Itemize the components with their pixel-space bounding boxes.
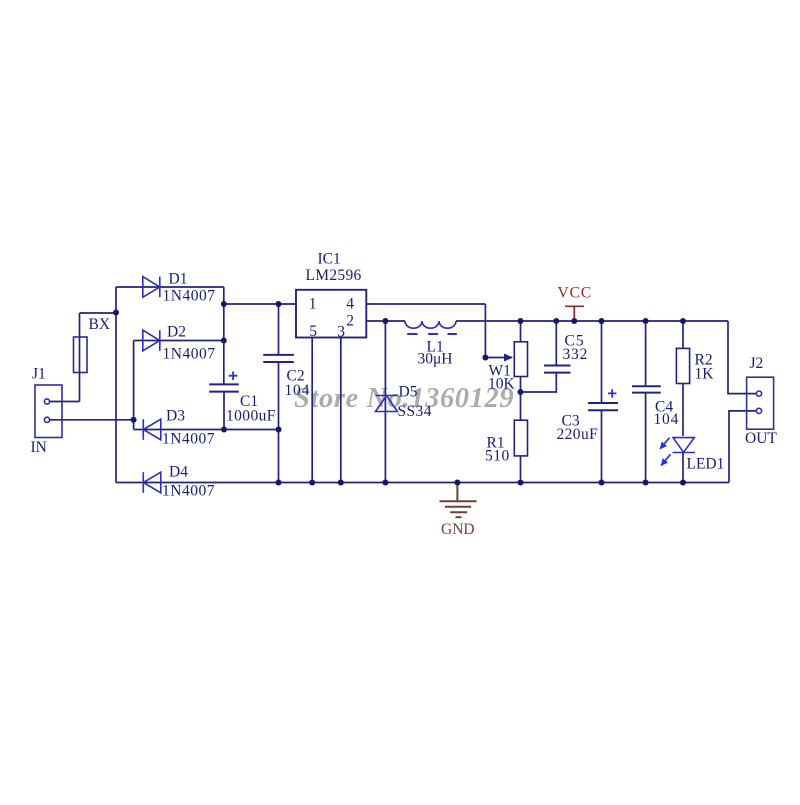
diode D5 schottky	[376, 396, 398, 412]
svg-text:J1: J1	[32, 366, 46, 383]
svg-text:D5: D5	[399, 384, 418, 401]
node feedback divider	[518, 389, 524, 395]
wire IC1 pin4 feedback row	[366, 303, 485, 305]
wire C5 top lead	[555, 321, 557, 365]
inductor L1	[405, 321, 456, 328]
junction dots	[113, 301, 686, 486]
svg-text:1N4007: 1N4007	[162, 483, 215, 500]
svg-text:104: 104	[654, 411, 680, 428]
node C2 ground	[276, 480, 282, 486]
svg-text:5: 5	[309, 323, 317, 340]
node C3 ground	[599, 480, 605, 486]
node C5 rail	[553, 318, 559, 324]
wire IC1 pin5 to ground	[311, 338, 313, 483]
wire feedback node to C5 bottom	[521, 373, 557, 392]
wire C2 top lead	[278, 304, 280, 355]
wire D5 vertical	[384, 321, 386, 483]
wire L1 to output rail	[456, 320, 728, 322]
svg-text:GND: GND	[441, 521, 475, 538]
wire fuse top to bus	[80, 312, 117, 314]
resistor R1	[514, 420, 527, 456]
watermark Store No.1360129	[294, 383, 516, 415]
node C2 top	[276, 301, 282, 307]
wire node row to IC1 pin1	[224, 303, 296, 305]
svg-text:1: 1	[309, 296, 317, 313]
svg-text:D2: D2	[167, 324, 186, 341]
svg-text:510: 510	[485, 448, 510, 465]
svg-text:D1: D1	[169, 271, 188, 288]
wire J1 pin2 row	[50, 419, 134, 421]
wire W1 bottom lead to node	[520, 377, 522, 421]
svg-text:D3: D3	[166, 408, 185, 425]
svg-text:LM2596: LM2596	[306, 267, 362, 284]
node C4 rail	[643, 318, 649, 324]
svg-text:OUT: OUT	[745, 430, 777, 447]
diode D3	[143, 419, 161, 440]
svg-text:3: 3	[337, 324, 345, 341]
svg-text:30μH: 30μH	[418, 351, 453, 368]
svg-text:332: 332	[563, 346, 589, 363]
wire C1 bottom lead	[223, 392, 225, 430]
svg-text:J2: J2	[750, 355, 764, 372]
svg-text:IN: IN	[31, 439, 47, 456]
wire left AC bus vertical	[115, 287, 117, 483]
diode D1	[143, 277, 160, 298]
node pin5 ground	[309, 480, 315, 486]
svg-text:LED1: LED1	[687, 456, 725, 473]
wire C4 top lead	[645, 321, 647, 386]
node VCC rail	[571, 318, 577, 324]
wire D1 cathode vertical down to C1	[223, 287, 225, 384]
node wiper	[482, 355, 488, 361]
wire rail corner down to J2 pin1	[728, 321, 756, 394]
fuse BX	[74, 337, 88, 373]
op-amp IC1 LM2596 box	[296, 290, 366, 338]
wire D1 row	[116, 286, 224, 288]
node R2 rail	[680, 318, 686, 324]
node C1 bottom	[221, 427, 227, 433]
wire ground bus	[116, 482, 729, 484]
wire C2 bottom lead to ground bus	[278, 362, 280, 483]
LED LED1	[673, 438, 696, 453]
svg-text:1000uF: 1000uF	[226, 408, 276, 425]
connector J2	[747, 377, 774, 429]
node W1 top rail	[518, 318, 524, 324]
svg-text:1N4007: 1N4007	[162, 431, 215, 448]
capacitor C2	[263, 355, 294, 362]
resistor R2	[676, 348, 689, 383]
potentiometer W1 body	[514, 342, 527, 377]
wire W1 wiper arrow	[485, 357, 512, 359]
core dashes of L1	[407, 333, 457, 335]
svg-text:VCC: VCC	[558, 285, 593, 302]
node C3 rail	[599, 318, 605, 324]
svg-text:4: 4	[346, 296, 354, 313]
svg-text:1N4007: 1N4007	[163, 288, 216, 305]
ground symbol	[440, 483, 477, 517]
power VCC symbol	[565, 306, 584, 321]
svg-text:IC1: IC1	[318, 251, 341, 268]
svg-text:2: 2	[346, 313, 354, 330]
svg-text:1K: 1K	[695, 366, 715, 383]
svg-text:1N4007: 1N4007	[163, 346, 216, 363]
wire IC1 pin3 to ground	[340, 338, 342, 483]
capacitor C5	[544, 366, 571, 373]
diode D2	[143, 330, 160, 351]
node LED1 ground	[680, 480, 686, 486]
node J1 pin2 junction	[131, 417, 137, 423]
wire J2 pin2 to ground bus	[729, 411, 756, 483]
node fuse-bus junction	[113, 310, 119, 316]
node GND junction	[454, 480, 460, 486]
wire R2 to LED1	[682, 384, 684, 437]
wire C3 bottom lead	[601, 410, 603, 482]
capacitor C4	[632, 386, 661, 392]
diode D4	[143, 472, 161, 493]
emission arrow 1 of LED1	[660, 438, 669, 449]
wire LED1 cathode to ground bus	[682, 453, 684, 483]
plus sign of C1	[229, 371, 238, 380]
capacitor C3 electrolytic	[588, 403, 618, 410]
node R1 ground	[518, 480, 524, 486]
svg-text:SS34: SS34	[398, 403, 432, 420]
wire D2 anode vertical	[133, 341, 135, 430]
plus sign of C3	[608, 389, 616, 397]
wire R1 bottom lead	[520, 456, 522, 483]
node C4 ground	[643, 480, 649, 486]
svg-text:220uF: 220uF	[557, 426, 599, 443]
wire J1 pin1 to fuse	[50, 401, 80, 403]
svg-text:D4: D4	[169, 464, 188, 481]
wire IC1 pin2 to L1	[366, 320, 405, 322]
wire C4 bottom lead	[645, 393, 647, 483]
svg-text:BX: BX	[89, 316, 111, 333]
node D5 top	[382, 318, 388, 324]
svg-text:104: 104	[285, 382, 311, 399]
wire C3 top lead	[601, 321, 603, 403]
node D1 cathode T	[221, 301, 227, 307]
wire fuse lead vertical	[79, 313, 81, 402]
wire R2 top lead	[682, 321, 684, 348]
node C2 mid row	[276, 427, 282, 433]
node D2 cathode T	[221, 338, 227, 344]
node pin3 ground	[338, 480, 344, 486]
node D5 ground	[382, 480, 388, 486]
wire W1 top lead	[520, 321, 522, 342]
wire D3 row	[134, 429, 279, 431]
emission arrow 2 of LED1	[661, 454, 670, 465]
svg-text:10K: 10K	[488, 376, 516, 393]
wire feedback vertical	[484, 304, 486, 358]
capacitor C1 electrolytic	[209, 384, 239, 391]
wire D2 row	[134, 340, 224, 342]
connector J1	[35, 385, 62, 438]
